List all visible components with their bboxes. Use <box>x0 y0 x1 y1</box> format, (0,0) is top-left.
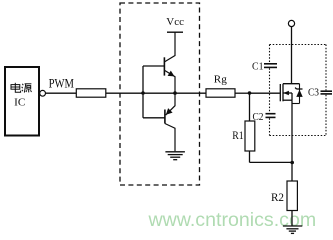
ground (main, bottom right) <box>283 226 302 233</box>
ground (driver stage) <box>165 152 185 160</box>
wire base Q2 <box>143 117 165 119</box>
source stub <box>283 99 292 101</box>
svg-text:www.cntronics.com: www.cntronics.com <box>148 209 317 231</box>
svg-text:R1: R1 <box>232 130 244 142</box>
wire node to R2 <box>291 162 293 181</box>
capacitor C3 <box>321 91 333 94</box>
channel bar <box>282 84 284 102</box>
dashed box MOSFET (parasitic) <box>270 45 327 136</box>
wire output junction to Rg <box>175 92 206 94</box>
Vcc supply bar <box>167 31 183 33</box>
svg-text:C1: C1 <box>252 61 264 73</box>
wire base tie vertical <box>142 66 144 118</box>
wire bottom horizontal <box>250 161 293 163</box>
wire gate junction to MOSFET gate <box>250 92 281 94</box>
node input junction <box>141 91 145 95</box>
node bottom junction <box>290 161 294 165</box>
svg-text:Rg: Rg <box>214 74 227 86</box>
transistor Q2 (PNP, bottom) <box>165 93 175 151</box>
MOSFET Q3 <box>280 84 299 102</box>
svg-text:Vcc: Vcc <box>166 16 184 28</box>
wire drain terminal to MOSFET <box>291 27 293 84</box>
node gate junction <box>248 91 252 95</box>
wire resistor to driver input junction <box>106 92 143 94</box>
body arrow <box>283 91 289 96</box>
body-source tie <box>291 93 293 100</box>
wire Rg to gate junction <box>235 92 250 94</box>
wire R2 to ground <box>291 211 293 227</box>
transistor Q1 (NPN, top) <box>164 32 175 93</box>
svg-text:IC: IC <box>14 96 25 108</box>
resistor Rg <box>206 89 235 97</box>
terminal circle drain <box>288 20 294 26</box>
capacitor C1 <box>264 64 277 68</box>
svg-text:C3: C3 <box>308 87 319 99</box>
drain stub <box>283 83 300 85</box>
resistor R1 <box>245 121 255 151</box>
node output junction <box>173 91 177 95</box>
dashed box driver stage <box>120 3 200 185</box>
wire PWM output to resistor <box>46 92 77 94</box>
wire R1 branch down <box>249 93 251 121</box>
terminal circle PWM <box>40 90 46 96</box>
wire source down to bottom node <box>291 100 293 162</box>
resistor R2 <box>287 181 297 211</box>
body stub <box>283 92 292 94</box>
gate bar <box>279 84 281 101</box>
capacitor C2 <box>266 114 276 118</box>
body diode <box>296 90 302 97</box>
body diode branch <box>292 84 300 104</box>
wire junction to output junction <box>143 92 175 94</box>
svg-text:PWM: PWM <box>49 77 74 91</box>
svg-text:R2: R2 <box>271 192 284 204</box>
svg-text:C2: C2 <box>253 111 264 123</box>
wire R1 to bottom node <box>249 151 251 162</box>
power IC box <box>5 67 39 136</box>
label 源 (yuan) <box>22 84 32 93</box>
wire base Q1 <box>143 65 164 67</box>
resistor (series, unnamed) <box>76 89 106 97</box>
label 电 (dian) <box>11 83 21 92</box>
